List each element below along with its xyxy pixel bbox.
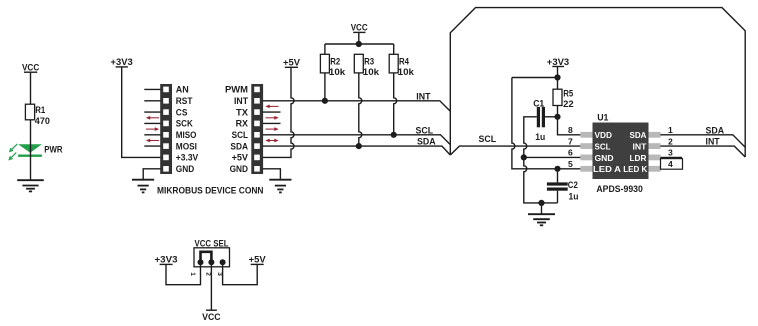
node +5V (mikrobus) (283, 58, 300, 68)
node VCC (pullups) (351, 23, 369, 33)
wire SCL net (263, 135, 451, 145)
svg-text:PWR: PWR (44, 144, 63, 154)
svg-text:AN: AN (176, 85, 189, 95)
svg-text:22: 22 (563, 99, 574, 109)
red arrow right (RX dir) (266, 127, 279, 131)
red arrow both (SDA dir) (265, 139, 278, 143)
svg-text:4: 4 (668, 159, 673, 169)
svg-text:+3V3: +3V3 (547, 57, 570, 67)
wire pin2 to VCC (210, 262, 212, 310)
svg-text:APDS-9930: APDS-9930 (596, 184, 643, 194)
ground (left PWR) (17, 180, 44, 191)
svg-text:PWM: PWM (225, 85, 248, 95)
header P1 left bar (160, 84, 172, 174)
wire R2 to INT (324, 73, 326, 101)
header P2 right bar (251, 84, 263, 174)
chip pads left (580, 132, 592, 172)
svg-text:SCL: SCL (416, 126, 434, 136)
svg-text:LED A: LED A (593, 164, 621, 174)
svg-text:SCL: SCL (232, 130, 249, 140)
svg-text:GND: GND (230, 164, 249, 174)
wire +3V3 to +3.3V pin (122, 67, 161, 157)
header P1 pin squares (163, 87, 169, 172)
svg-text:3: 3 (216, 272, 223, 276)
wire +3V3 stem (557, 67, 559, 78)
junction VCC rail (356, 41, 362, 47)
wire LED A drop (hops SCL) (512, 78, 581, 169)
svg-text:10k: 10k (329, 67, 345, 77)
wire INT to bus (660, 146, 745, 157)
wire SDA to bus (660, 135, 745, 147)
svg-text:2: 2 (205, 272, 212, 276)
chip internal labels right (623, 130, 648, 174)
wire rail drops (324, 44, 326, 54)
svg-text:CS: CS (176, 107, 188, 117)
svg-text:1u: 1u (535, 132, 545, 142)
svg-text:10k: 10k (363, 67, 379, 77)
wire R5 to VDD pin (558, 106, 581, 135)
svg-text:+3.3V: +3.3V (176, 153, 198, 163)
svg-text:5: 5 (568, 159, 573, 169)
jumper pin 2 (208, 259, 214, 265)
junction ground stem (538, 200, 544, 206)
jumper pin 3 (220, 259, 226, 265)
jumper pin 1 (198, 259, 204, 265)
resistor R3 (354, 54, 379, 77)
svg-text:SCL: SCL (479, 134, 497, 144)
resistor R4 (389, 54, 414, 77)
wire R1 through LED to ground (30, 120, 32, 180)
junction LED A / C2 (554, 166, 560, 172)
svg-text:VCC: VCC (202, 312, 221, 322)
jumper J1 box (194, 248, 230, 267)
svg-text:GND: GND (176, 164, 195, 174)
svg-text:VCC: VCC (22, 63, 40, 73)
wire +5V down with hops (263, 67, 295, 157)
node +5V (jumper) (249, 255, 266, 265)
svg-text:8: 8 (568, 125, 573, 135)
LED PWR (9, 144, 63, 160)
wire GND pin (524, 156, 581, 158)
junction +3V3 (554, 74, 560, 80)
svg-text:SDA: SDA (706, 126, 725, 136)
red arrow left (INT dir) (265, 105, 278, 109)
wire SDA net (263, 146, 451, 155)
op-amp U1 body (593, 123, 649, 180)
header P1 stub wires (144, 89, 160, 146)
wire C1 right to R5 (545, 116, 558, 118)
svg-text:R4: R4 (399, 57, 409, 67)
svg-text:R1: R1 (35, 105, 45, 115)
svg-text:2: 2 (668, 136, 673, 146)
wire SCL out of funnel (450, 146, 580, 155)
svg-text:TX: TX (236, 107, 248, 117)
svg-text:SDA: SDA (230, 141, 248, 151)
ground (sensor) (528, 214, 555, 225)
svg-text:SDA: SDA (630, 130, 647, 140)
chip internal labels left (593, 130, 621, 174)
header P2 pin squares (254, 87, 260, 172)
svg-text:1: 1 (189, 272, 196, 276)
svg-text:LED K: LED K (623, 164, 648, 174)
stub RX (263, 122, 281, 124)
wire rail to LED A drop (512, 77, 558, 79)
red arrow right (MISO dir) (146, 127, 159, 131)
svg-text:R3: R3 (364, 57, 374, 67)
svg-text:VDD: VDD (595, 130, 613, 140)
svg-text:INT: INT (234, 96, 249, 106)
svg-text:+5V: +5V (283, 58, 300, 68)
wire VCC stem (358, 32, 360, 44)
resistor R1 (25, 104, 50, 126)
svg-text:470: 470 (35, 116, 50, 126)
svg-text:6: 6 (568, 148, 573, 158)
junction C1/GND pin (521, 154, 527, 160)
wire ground stem (541, 203, 543, 214)
svg-text:MISO: MISO (176, 130, 197, 140)
wire R4 to SCL (hops INT) (394, 73, 397, 135)
svg-text:SDA: SDA (417, 137, 436, 147)
pin number 4 box (661, 159, 683, 170)
resistor R2 (320, 54, 345, 77)
svg-text:C1: C1 (533, 98, 544, 108)
capacitor C2 (547, 169, 579, 203)
wire +3V3 to pin1 (166, 262, 201, 284)
stub TX (263, 111, 281, 113)
svg-text:INT: INT (706, 137, 721, 147)
node VCC (bottom) (202, 310, 221, 322)
svg-text:10k: 10k (398, 67, 414, 77)
svg-text:SCL: SCL (595, 142, 611, 152)
header P1 pin labels (176, 85, 198, 174)
wire INT net (263, 101, 451, 112)
node +3V3 (jumper) (155, 255, 178, 265)
svg-text:3: 3 (668, 148, 673, 158)
junction R4/SCL (391, 132, 397, 138)
resistor R5 (553, 78, 574, 109)
svg-text:C2: C2 (568, 180, 578, 190)
wire C1 left down to GND pin and C2 (hops SCL, LED A) (524, 117, 558, 203)
svg-text:VCC SEL: VCC SEL (195, 238, 230, 248)
svg-text:MIKROBUS DEVICE CONN: MIKROBUS DEVICE CONN (157, 186, 264, 196)
svg-text:MOSI: MOSI (176, 141, 197, 151)
header P2 pin labels (225, 85, 249, 174)
node +3V3 (mikrobus) (111, 57, 133, 67)
svg-text:LDR: LDR (630, 153, 647, 163)
node +3V3 (sensor) (547, 57, 570, 67)
svg-text:SCK: SCK (176, 119, 194, 129)
svg-text:INT: INT (633, 142, 648, 152)
svg-text:INT: INT (416, 92, 431, 102)
wire +5V to pin3 (223, 262, 258, 284)
svg-text:R5: R5 (563, 89, 573, 99)
svg-text:+5V: +5V (249, 255, 266, 265)
svg-text:1: 1 (668, 125, 673, 135)
wire bus loop (450, 8, 745, 157)
svg-text:U1: U1 (597, 112, 608, 122)
svg-text:+3V3: +3V3 (111, 57, 133, 67)
junction R5/C1 (554, 114, 560, 120)
svg-text:RX: RX (236, 119, 248, 129)
red arrow left (MOSI dir) (146, 139, 159, 143)
wire R3 to SDA (hops INT, SCL) (359, 73, 362, 146)
stub LDR (660, 156, 682, 158)
svg-text:VCC: VCC (351, 23, 369, 33)
junction R3/SDA (356, 143, 362, 149)
red arrow left (SCK dir) (146, 116, 159, 120)
svg-text:+3V3: +3V3 (155, 255, 178, 265)
wire P1 GND to ground (143, 169, 160, 180)
capacitor C1 (533, 98, 545, 142)
wire P2 GND to ground (263, 169, 281, 180)
svg-text:RST: RST (176, 96, 193, 106)
svg-text:7: 7 (568, 136, 573, 146)
svg-text:R2: R2 (330, 57, 340, 67)
red arrow right (TX dir) (266, 116, 279, 120)
pin digits rotated (189, 272, 223, 276)
chip pads right (649, 132, 661, 172)
ground (P2) (269, 180, 291, 193)
svg-text:+5V: +5V (232, 153, 248, 163)
svg-text:GND: GND (595, 153, 614, 163)
svg-text:1u: 1u (569, 192, 579, 202)
junction R2/INT (322, 98, 328, 104)
ground (P1) (132, 180, 154, 193)
jumper bracket 1-2 (201, 252, 212, 260)
wire VCC to R1 (30, 72, 32, 104)
node VCC (left) (22, 63, 40, 73)
wire rail (325, 43, 394, 45)
